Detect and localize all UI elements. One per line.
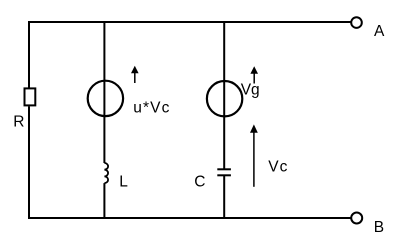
- source U1 (dependent source u*Vc): [88, 81, 123, 116]
- terminal A: [351, 17, 362, 28]
- wire left branch upper: [28, 21, 30, 88]
- capacitor C plate top: [217, 168, 231, 170]
- wire branch 3 upper (through source): [223, 22, 225, 169]
- resistor R: [25, 88, 36, 105]
- wire bottom rail: [29, 217, 351, 219]
- wire branch 2 lower: [103, 183, 105, 219]
- arrow current direction Vg: [250, 66, 258, 83]
- wire branch 2 upper (through source): [103, 22, 105, 163]
- svg-text:Vg: Vg: [241, 82, 260, 99]
- svg-text:u*Vc: u*Vc: [133, 99, 170, 116]
- svg-text:C: C: [194, 173, 205, 190]
- capacitor C plate bottom: [217, 174, 231, 176]
- svg-text:L: L: [119, 173, 128, 190]
- wire left branch lower: [28, 106, 30, 219]
- svg-text:Vc: Vc: [268, 158, 288, 175]
- svg-text:A: A: [374, 23, 385, 40]
- source U2 (Vg): [207, 81, 242, 116]
- inductor L: [104, 163, 108, 183]
- wire top rail: [29, 21, 351, 23]
- svg-text:R: R: [13, 113, 24, 130]
- voltage arrow Vc: [250, 124, 258, 186]
- terminal B: [351, 213, 362, 224]
- arrow current direction u*Vc: [131, 66, 139, 83]
- wire branch 3 lower: [223, 176, 225, 220]
- svg-text:B: B: [374, 219, 384, 236]
